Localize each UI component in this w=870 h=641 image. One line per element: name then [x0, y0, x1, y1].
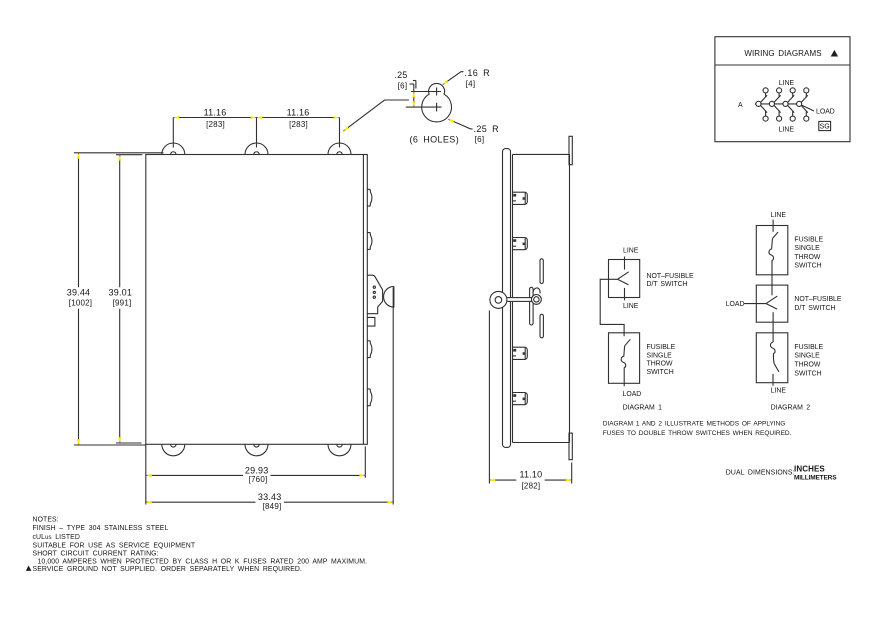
- keyhole slot detail outline: [422, 83, 452, 122]
- wire line out of U5 bottom: [772, 374, 774, 386]
- svg-text:11.10: 11.10: [519, 470, 542, 480]
- svg-text:FUSIBLE: FUSIBLE: [794, 236, 823, 243]
- door clamp 2: [512, 238, 527, 250]
- svg-text:[283]: [283]: [289, 120, 308, 129]
- wire line out of U1 bottom: [624, 288, 626, 300]
- svg-text:WIRING DIAGRAMS: WIRING DIAGRAMS: [744, 49, 821, 58]
- notes block: [26, 517, 367, 573]
- svg-text:LINE: LINE: [623, 303, 639, 310]
- svg-text:DUAL DIMENSIONS:: DUAL DIMENSIONS:: [726, 470, 795, 477]
- wiring diagrams title block: [715, 37, 850, 142]
- svg-text:DIAGRAM 1: DIAGRAM 1: [623, 404, 663, 411]
- svg-text:FINISH – TYPE 304 STAINLESS ST: FINISH – TYPE 304 STAINLESS STEEL: [33, 525, 169, 532]
- side view mounting tab bottom: [569, 433, 572, 460]
- latch plate front view: [367, 275, 382, 326]
- NOT-FUSIBLE D/T SWITCH label U1: [647, 273, 695, 288]
- svg-text:LINE: LINE: [771, 388, 787, 395]
- enclosure front view body: [146, 155, 367, 445]
- svg-text:[1002]: [1002]: [69, 299, 92, 308]
- svg-text:cULus LISTED: cULus LISTED: [33, 534, 80, 541]
- mounting tab top 2: [245, 143, 268, 155]
- svg-text:INCHES: INCHES: [794, 464, 825, 473]
- svg-text:LINE: LINE: [779, 80, 795, 87]
- vent slot upper: [540, 259, 543, 284]
- svg-text:DIAGRAM 2: DIAGRAM 2: [771, 404, 811, 411]
- dimension 29.93 [760]: [146, 444, 365, 504]
- svg-text:SWITCH: SWITCH: [794, 263, 821, 270]
- svg-text:SINGLE: SINGLE: [794, 245, 820, 252]
- switch box U2 fusible single throw: [609, 333, 640, 384]
- wire line into U3: [772, 220, 774, 232]
- wire LOAD into U4: [744, 303, 767, 305]
- load tap wire: [801, 105, 814, 111]
- latch hook side view: [533, 288, 540, 293]
- svg-text:LINE: LINE: [779, 126, 795, 133]
- svg-text:LOAD: LOAD: [726, 301, 745, 308]
- svg-text:.16 R: .16 R: [465, 68, 491, 78]
- svg-text:LINE: LINE: [771, 212, 787, 219]
- FUSIBLE SINGLE THROW SWITCH label U2: [647, 344, 676, 376]
- handle arm side view: [504, 298, 536, 302]
- leader .16 R [4]: [442, 68, 490, 89]
- mounting tab bottom 2: [245, 444, 268, 456]
- switch pole 2: [769, 88, 781, 121]
- switch pole 1: [756, 88, 768, 121]
- svg-text:(6 HOLES): (6 HOLES): [410, 135, 460, 145]
- svg-text:SERVICE GROUND NOT SUPPLIED.: SERVICE GROUND NOT SUPPLIED. ORDER SEPAR…: [33, 566, 303, 573]
- wire line into U1: [624, 257, 626, 270]
- keyhole large hole center mark: [406, 103, 442, 112]
- svg-text:FUSIBLE: FUSIBLE: [647, 344, 676, 351]
- svg-text:SHORT CIRCUIT CURRENT RATING:: SHORT CIRCUIT CURRENT RATING:: [33, 551, 159, 558]
- FUSIBLE SINGLE THROW SWITCH label U3: [794, 236, 823, 269]
- svg-text:SUITABLE FOR USE AS SERVICE EQ: SUITABLE FOR USE AS SERVICE EQUIPMENT: [33, 542, 196, 549]
- svg-text:NOT–FUSIBLE: NOT–FUSIBLE: [794, 296, 842, 303]
- hinge bump 3: [367, 341, 372, 358]
- svg-text:THROW: THROW: [647, 361, 674, 368]
- svg-text:[6]: [6]: [475, 135, 485, 144]
- dimension 11.10 [282]: [489, 311, 571, 491]
- svg-text:LOAD: LOAD: [816, 109, 835, 116]
- svg-text:D/T SWITCH: D/T SWITCH: [794, 305, 835, 312]
- hinge bump 1: [367, 189, 372, 206]
- side view enclosure body: [513, 154, 570, 442]
- leader .25 R [6]: [448, 118, 499, 144]
- hinge bump 2: [367, 233, 372, 250]
- svg-text:LOAD: LOAD: [623, 391, 642, 398]
- svg-text:39.01: 39.01: [109, 288, 133, 298]
- svg-text:THROW: THROW: [794, 362, 821, 369]
- hinge bump 4: [367, 389, 372, 406]
- switch box U1 not-fusible D/T: [609, 260, 640, 298]
- svg-text:[760]: [760]: [249, 475, 268, 484]
- wire from U1 common to U2: [600, 279, 624, 336]
- handle knob circle: [490, 291, 507, 308]
- wire U3 to U4: [771, 262, 773, 295]
- wire U4 to U5: [772, 312, 774, 342]
- svg-text:A: A: [738, 102, 743, 109]
- mounting tab bottom 3: [328, 444, 351, 456]
- svg-text:[283]: [283]: [206, 120, 225, 129]
- D/T switch blades U1: [618, 272, 629, 285]
- fusible switch symbol U2: [621, 339, 630, 386]
- side view door panel: [503, 149, 511, 448]
- latch rod side view: [530, 287, 534, 325]
- fusible switch symbol U3: [769, 232, 778, 262]
- svg-text:FUSIBLE: FUSIBLE: [794, 344, 823, 351]
- mounting tab top 1: [162, 143, 185, 155]
- side view mounting tab top: [569, 136, 572, 164]
- svg-text:SINGLE: SINGLE: [647, 352, 673, 359]
- svg-text:FUSES TO DOUBLE THROW SWITCHES: FUSES TO DOUBLE THROW SWITCHES WHEN REQU…: [603, 430, 792, 437]
- door clamp 3: [512, 347, 527, 359]
- svg-text:.25 R: .25 R: [474, 124, 500, 134]
- switch box U3 fusible single throw: [756, 226, 788, 275]
- handle pivot small circle: [532, 295, 542, 305]
- latch knob front view: [384, 286, 394, 307]
- dimension .25 [6] keyhole centers: [394, 70, 416, 107]
- svg-text:[991]: [991]: [113, 299, 132, 308]
- switch pole 4: [797, 88, 809, 121]
- D/T switch blades U4: [766, 296, 777, 309]
- svg-text:[282]: [282]: [522, 482, 541, 491]
- svg-text:[849]: [849]: [263, 502, 282, 511]
- fusible switch symbol U5: [770, 342, 778, 372]
- svg-text:SINGLE: SINGLE: [794, 353, 820, 360]
- leader from mounting tab to keyhole detail: [343, 100, 409, 132]
- vent slot lower: [540, 314, 543, 338]
- svg-text:NOTES:: NOTES:: [33, 517, 59, 524]
- dual dimensions label: [726, 464, 837, 481]
- svg-text:.25: .25: [394, 70, 407, 80]
- NOT-FUSIBLE D/T SWITCH label U4: [794, 296, 842, 312]
- dimension 11.16 [283] left: [173, 108, 256, 148]
- svg-text:DIAGRAM 1 AND 2 ILLUSTRATE MET: DIAGRAM 1 AND 2 ILLUSTRATE METHODS OF AP…: [603, 420, 786, 427]
- dimension 39.01 [991]: [109, 155, 143, 443]
- svg-text:NOT–FUSIBLE: NOT–FUSIBLE: [647, 273, 695, 280]
- switch box U4 not-fusible D/T: [756, 285, 788, 322]
- svg-text:SWITCH: SWITCH: [794, 370, 821, 377]
- switch pole 3: [783, 88, 795, 121]
- svg-text:D/T SWITCH: D/T SWITCH: [647, 281, 688, 288]
- svg-text:SWITCH: SWITCH: [647, 369, 674, 376]
- svg-text:11.16: 11.16: [204, 108, 227, 118]
- switch box U5 fusible single throw: [756, 333, 788, 383]
- dimension 11.16 [283] right: [257, 108, 340, 148]
- diagrams note text: [603, 420, 792, 437]
- svg-text:39.44: 39.44: [67, 288, 91, 298]
- svg-text:MILLIMETERS: MILLIMETERS: [794, 474, 837, 481]
- svg-text:THROW: THROW: [794, 254, 821, 261]
- FUSIBLE SINGLE THROW SWITCH label U5: [794, 344, 823, 377]
- svg-text:33.43: 33.43: [258, 492, 282, 502]
- dimension 39.44 [1002]: [67, 153, 164, 445]
- svg-text:[6]: [6]: [398, 82, 408, 91]
- door clamp 4: [512, 393, 527, 405]
- mounting tab top 3: [328, 143, 351, 155]
- dimension 33.43 [849]: [146, 288, 393, 512]
- common bus wire: [755, 103, 802, 105]
- svg-text:LINE: LINE: [623, 247, 639, 254]
- svg-text:10,000 AMPERES WHEN PROTECTED: 10,000 AMPERES WHEN PROTECTED BY CLASS H…: [38, 559, 368, 566]
- svg-text:11.16: 11.16: [287, 108, 310, 118]
- svg-text:[4]: [4]: [466, 80, 476, 89]
- svg-text:29.93: 29.93: [245, 465, 269, 475]
- door clamp 1: [512, 192, 527, 204]
- keyhole small hole center mark: [411, 88, 441, 96]
- SG symbol box: [819, 121, 831, 130]
- mounting tab bottom 1: [162, 444, 185, 456]
- svg-text:SG: SG: [820, 124, 830, 131]
